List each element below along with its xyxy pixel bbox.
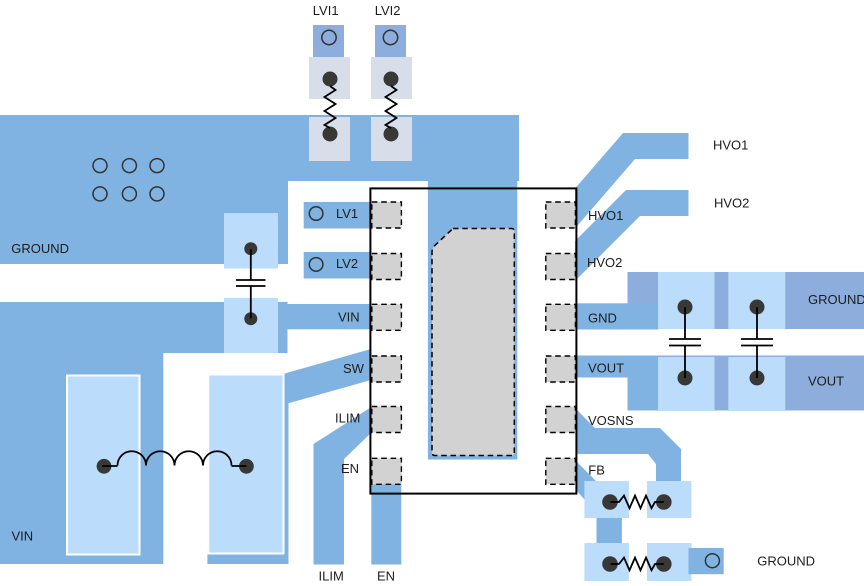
connector LVI1 top square xyxy=(313,25,344,57)
pin pad SW xyxy=(372,356,402,382)
svg-text:SW: SW xyxy=(343,361,365,376)
via LVI1 lower xyxy=(323,127,338,142)
resistor R3 top pad (LVI1) xyxy=(309,57,350,99)
resistor R4 zigzag xyxy=(386,86,397,128)
svg-text:LVI1: LVI1 xyxy=(313,3,339,18)
inductor L1 symbol xyxy=(102,451,246,466)
resistor R1 right pad xyxy=(647,481,691,518)
pin pad FB xyxy=(546,458,576,484)
svg-text:EN: EN xyxy=(341,461,359,476)
resistor R4 bottom pad xyxy=(371,117,412,161)
wire VIN trace to pin 3 xyxy=(224,304,371,329)
hole GROUND via bottom-right xyxy=(705,554,719,568)
via LVI1 upper xyxy=(323,72,338,87)
ground pour GROUND (top-left copper) xyxy=(0,115,519,460)
ground plane band right (GROUND) xyxy=(628,272,864,329)
outline circles group xyxy=(93,30,719,567)
via hole C xyxy=(150,159,164,173)
svg-text:ILIM: ILIM xyxy=(319,569,344,584)
svg-text:EN: EN xyxy=(377,569,395,584)
via C2 bottom xyxy=(678,371,693,386)
via R1 left xyxy=(602,494,618,510)
pin pad HVO2 xyxy=(546,254,576,280)
svg-text:GROUND: GROUND xyxy=(757,553,815,568)
svg-text:GROUND: GROUND xyxy=(11,241,69,256)
wire HVO1 trace xyxy=(575,133,689,229)
via R2 left xyxy=(602,556,618,572)
via C1 top xyxy=(244,242,257,255)
wire VOUT trace to pin 9 xyxy=(576,356,658,411)
pin pad VIN xyxy=(372,304,402,330)
svg-text:HVO1: HVO1 xyxy=(588,208,623,223)
svg-text:GND: GND xyxy=(588,310,617,325)
inductor L1 right pad xyxy=(208,375,283,554)
pin pad EN xyxy=(372,458,402,484)
via LVI2 lower xyxy=(384,127,399,142)
svg-text:VOUT: VOUT xyxy=(808,374,844,389)
capacitor C3 symbol xyxy=(741,307,773,378)
connector LVI2 top square xyxy=(375,25,406,57)
hole LVI1 xyxy=(322,30,336,44)
resistor R4 top pad (LVI2) xyxy=(371,57,412,99)
capacitor C2 bottom pad xyxy=(658,357,715,411)
wire VOSNS trace xyxy=(576,409,681,481)
svg-text:LVI2: LVI2 xyxy=(375,3,401,18)
wire FB trace xyxy=(576,461,629,518)
capacitor C1 symbol xyxy=(236,249,266,319)
pin pad VOUT xyxy=(546,356,576,382)
svg-text:HVO1: HVO1 xyxy=(713,138,748,153)
via C3 top xyxy=(750,300,765,315)
via L1 right xyxy=(239,459,254,474)
vin pour VIN (bottom-left copper) xyxy=(0,302,288,564)
svg-text:LV2: LV2 xyxy=(336,256,358,271)
svg-text:VOUT: VOUT xyxy=(588,361,624,376)
pin pad LV1 xyxy=(372,202,402,228)
via R1 right xyxy=(656,494,672,510)
via L1 left xyxy=(97,459,112,474)
via hole E xyxy=(122,187,136,201)
svg-text:HVO2: HVO2 xyxy=(714,196,749,211)
via R2 right xyxy=(656,556,672,572)
pin pad GND xyxy=(546,304,576,330)
wire SW trace and SW copper around L1 right pad xyxy=(284,349,371,564)
via hole A xyxy=(93,159,107,173)
op-amp U1 IC outline xyxy=(370,188,576,493)
svg-text:ILIM: ILIM xyxy=(335,411,360,426)
pin pad ILIM xyxy=(372,407,402,433)
hole LV2 xyxy=(309,258,323,272)
via C1 bottom xyxy=(244,312,257,325)
svg-text:FB: FB xyxy=(588,463,605,478)
svg-text:VIN: VIN xyxy=(12,528,34,543)
capacitor C3 bottom pad xyxy=(728,357,785,411)
wire ILIM trace xyxy=(314,406,374,565)
via LVI2 upper xyxy=(384,72,399,87)
via C2 top xyxy=(678,300,693,315)
capacitor C1 bottom pad xyxy=(224,298,278,353)
wire GND trace to pin 10 xyxy=(576,303,659,329)
resistor R3 bottom pad xyxy=(309,117,350,161)
wire connector between R1 and R2 pads xyxy=(597,518,622,543)
wire SW copper under L1 right pad xyxy=(207,550,288,564)
via hole D xyxy=(93,187,107,201)
thermal pad xyxy=(432,229,514,456)
symbols group xyxy=(102,86,773,570)
hole LV1 xyxy=(309,207,323,221)
pin pad HVO1 xyxy=(546,202,576,228)
via dots group xyxy=(97,72,765,572)
svg-text:VIN: VIN xyxy=(338,310,360,325)
via C3 bottom xyxy=(750,371,765,386)
wire LV1 trace xyxy=(304,202,371,229)
via hole B xyxy=(122,159,136,173)
wire HVO2 trace xyxy=(575,190,689,281)
via hole F xyxy=(150,187,164,201)
hole LVI2 xyxy=(383,30,397,44)
svg-text:VOSNS: VOSNS xyxy=(588,413,634,428)
capacitor C2 symbol xyxy=(669,307,701,378)
capacitor C2 top pad xyxy=(658,272,715,329)
resistor R2 zigzag xyxy=(611,558,664,571)
resistor R2 left pad xyxy=(584,543,629,581)
svg-text:LV1: LV1 xyxy=(336,206,358,221)
capacitor C1 top pad (input cap) xyxy=(224,213,278,269)
pin pad VOSNS xyxy=(546,407,576,433)
pin pad LV2 xyxy=(372,254,402,280)
svg-text:HVO2: HVO2 xyxy=(587,255,622,270)
inductor L1 left pad xyxy=(67,376,140,555)
capacitor C3 top pad xyxy=(728,272,785,329)
resistor R2 right pad xyxy=(647,543,691,581)
vout plane band right (VOUT) xyxy=(628,356,864,411)
resistor R3 zigzag xyxy=(325,86,336,128)
svg-text:GROUND: GROUND xyxy=(808,292,864,307)
ground via pad bottom-right xyxy=(689,548,724,574)
resistor R1 left pad xyxy=(584,481,629,518)
wire LV2 trace xyxy=(304,252,371,279)
wire EN trace xyxy=(371,465,401,565)
resistor R1 zigzag xyxy=(611,496,664,509)
